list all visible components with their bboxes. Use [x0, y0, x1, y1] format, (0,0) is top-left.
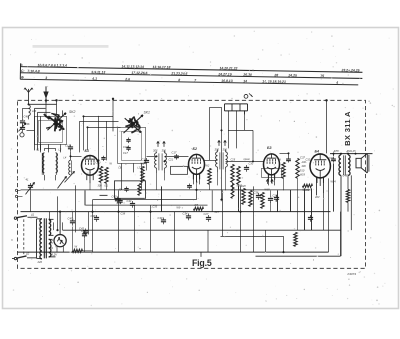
svg-text:0,1: 0,1	[105, 184, 109, 187]
svg-text:W30: W30	[265, 188, 271, 191]
svg-text:302: 302	[153, 148, 158, 152]
svg-text:5000: 5000	[237, 184, 243, 187]
svg-text:C46: C46	[25, 122, 30, 126]
svg-text:C45: C45	[343, 174, 348, 177]
svg-text:C17: C17	[172, 150, 177, 154]
svg-text:Б3: Б3	[267, 146, 272, 150]
svg-text:C44: C44	[127, 199, 132, 203]
svg-text:≈: ≈	[11, 238, 13, 242]
svg-text:C32: C32	[306, 158, 311, 161]
svg-text:300: 300	[98, 184, 103, 187]
svg-text:2,6: 2,6	[124, 77, 130, 81]
svg-text:SK1: SK1	[144, 110, 151, 114]
svg-text:R10: R10	[300, 168, 305, 172]
svg-text:8: 8	[178, 78, 180, 82]
svg-text:C33: C33	[153, 205, 158, 208]
svg-text:3: 3	[45, 76, 47, 80]
svg-text:W2: W2	[206, 164, 210, 167]
svg-text:75: 75	[320, 74, 324, 78]
svg-text:23,2+,24,25: 23,2+,24,25	[340, 68, 359, 72]
svg-text:14,11,13,12,14: 14,11,13,12,14	[121, 65, 144, 69]
svg-text:14: 14	[243, 79, 247, 83]
svg-text:C10: C10	[96, 160, 101, 164]
svg-text:4,1: 4,1	[91, 77, 97, 81]
svg-text:301: 301	[162, 148, 167, 152]
svg-text:4: 4	[335, 81, 338, 85]
svg-text:24,27,19: 24,27,19	[217, 72, 231, 76]
svg-text:I:: I:	[21, 63, 23, 67]
svg-text:17,12,26,6: 17,12,26,6	[131, 71, 147, 75]
svg-text:Fig.5: Fig.5	[192, 258, 212, 268]
svg-text:5,9,11,13: 5,9,11,13	[91, 70, 105, 74]
svg-text:C25: C25	[231, 158, 236, 161]
svg-text:C36: C36	[254, 190, 259, 194]
svg-text:220: 220	[37, 260, 43, 264]
svg-text:F4074: F4074	[348, 272, 357, 276]
svg-text:W24: W24	[331, 180, 337, 183]
svg-text:Б1: Б1	[85, 149, 90, 153]
svg-text:ДЛ8: ДЛ8	[333, 149, 340, 153]
svg-text:16,8,13: 16,8,13	[221, 79, 232, 83]
svg-text:C48: C48	[117, 201, 122, 205]
svg-text:C39: C39	[158, 216, 163, 220]
svg-text:24,25: 24,25	[287, 73, 297, 77]
svg-text:C48: C48	[91, 214, 96, 218]
svg-text:1b,5,6,7,8,6,1,2,3,4: 1b,5,6,7,8,6,1,2,3,4	[37, 63, 67, 67]
svg-text:C41: C41	[81, 229, 86, 233]
svg-text:26,30: 26,30	[242, 73, 252, 77]
svg-text:SK2: SK2	[69, 110, 76, 114]
svg-text:BX 311 A: BX 311 A	[343, 111, 352, 146]
svg-text:41: 41	[26, 177, 29, 181]
svg-text:Б2: Б2	[193, 147, 198, 151]
svg-text:21,23,24,6: 21,23,24,6	[170, 72, 187, 76]
svg-text:C46: C46	[24, 114, 30, 118]
svg-text:W9: W9	[177, 206, 181, 209]
svg-text:пром: пром	[244, 158, 250, 161]
svg-text:28: 28	[273, 73, 278, 77]
svg-text:Б4: Б4	[315, 149, 320, 153]
svg-text:C38: C38	[121, 212, 126, 215]
svg-text:Б5: Б5	[49, 241, 53, 245]
svg-text:302: 302	[215, 147, 220, 151]
svg-text:C18: C18	[123, 145, 128, 149]
svg-text:301: 301	[223, 147, 228, 151]
svg-text:C27: C27	[204, 212, 209, 216]
svg-text:Φ: Φ	[21, 76, 24, 80]
svg-text:C27: C27	[215, 211, 220, 214]
svg-text:C21: C21	[169, 158, 174, 161]
svg-text:C19: C19	[65, 143, 71, 147]
svg-text:400: 400	[302, 165, 307, 168]
svg-text:-40°: -40°	[118, 188, 123, 191]
svg-text:C17: C17	[123, 151, 128, 155]
svg-text:13,16,17,18: 13,16,17,18	[152, 65, 170, 69]
svg-text:7,10,4,8: 7,10,4,8	[27, 69, 39, 73]
svg-text:2Ω: 2Ω	[49, 246, 53, 250]
svg-text:C32: C32	[329, 157, 334, 160]
svg-text:C1: C1	[142, 157, 146, 161]
svg-text:14,20,21,22: 14,20,21,22	[219, 66, 237, 70]
svg-text:14, 15,18,19,21: 14, 15,18,19,21	[262, 80, 286, 84]
svg-text:W19: W19	[300, 173, 306, 176]
svg-text:C:: C:	[21, 69, 25, 73]
svg-text:R7: R7	[195, 203, 199, 207]
svg-text:ДМ1,25: ДМ1,25	[346, 149, 357, 153]
svg-text:C39: C39	[273, 194, 278, 197]
svg-text:Δ1: Δ1	[30, 213, 35, 217]
svg-text:C47: C47	[68, 216, 73, 220]
svg-text:Δ2: Δ2	[25, 251, 30, 255]
svg-text:C30: C30	[249, 162, 254, 165]
svg-text:40V: 40V	[315, 195, 320, 199]
svg-text:W14: W14	[141, 162, 147, 165]
svg-text:C34: C34	[183, 211, 188, 215]
